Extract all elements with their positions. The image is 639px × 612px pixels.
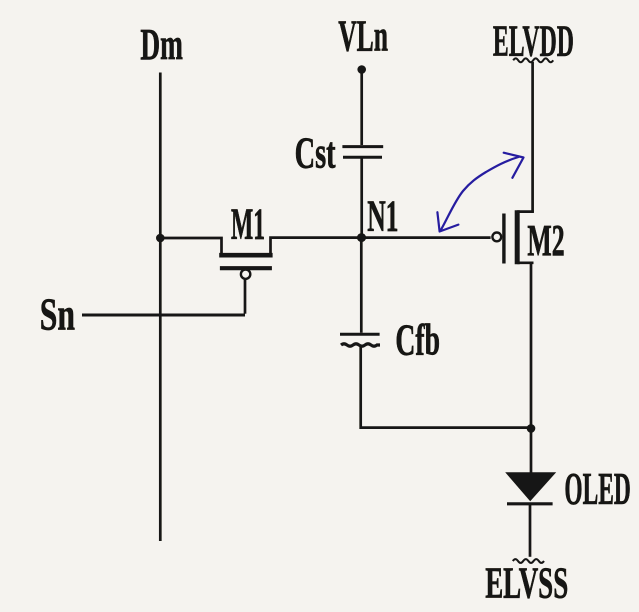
svg-text:Sn: Sn: [40, 289, 75, 340]
svg-text:ELVDD: ELVDD: [493, 16, 574, 65]
svg-text:M2: M2: [527, 216, 564, 265]
svg-text:Cfb: Cfb: [395, 315, 440, 364]
svg-text:M1: M1: [231, 200, 265, 249]
svg-text:Dm: Dm: [140, 20, 183, 69]
svg-text:Cst: Cst: [295, 129, 336, 178]
svg-text:N1: N1: [367, 191, 398, 240]
svg-text:ELVSS: ELVSS: [485, 558, 568, 607]
svg-text:OLED: OLED: [564, 463, 630, 514]
svg-text:VLn: VLn: [338, 12, 388, 61]
